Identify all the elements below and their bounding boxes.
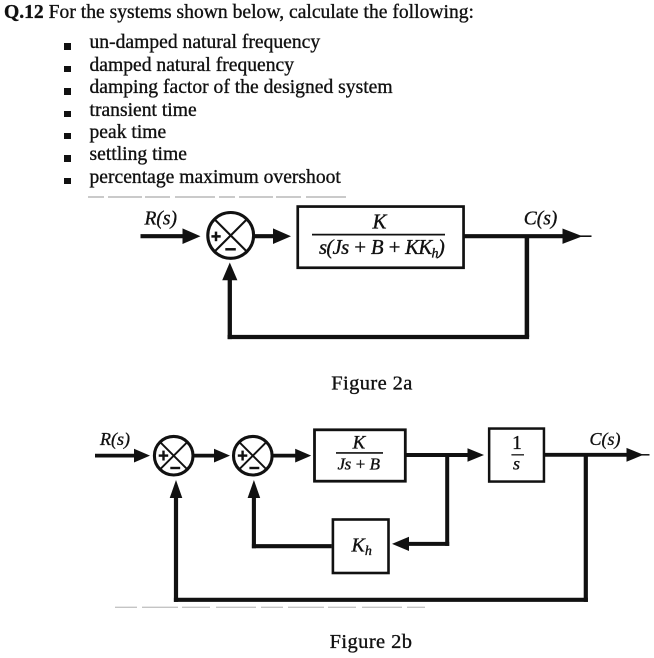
bullet 3 [64,88,71,95]
arrowhead into G3 [468,448,485,461]
bullet 6 [64,155,71,162]
svg-text:s(Js + B + KKh): s(Js + B + KKh) [319,236,445,262]
scan artifact line under bottom wire [115,606,425,608]
node takeoff fig2a [525,236,530,337]
arrowhead into summing junction fig2a [183,228,201,244]
svg-text:C(s): C(s) [590,429,621,450]
svg-text:R(s): R(s) [144,209,178,230]
bullet 4 [64,111,71,118]
svg-text:1: 1 [512,433,522,454]
arrowhead into S3 [214,449,230,463]
block G3 1/s [489,429,544,482]
scan artifact line under list [88,196,347,198]
wire inner feedback left vertical [252,497,256,548]
minus sign S3 [249,467,259,469]
svg-text:Figure 2a: Figure 2a [331,373,413,395]
wire feedback bottom fig2a [228,335,529,339]
wire block G1 to output fig2a [465,234,564,238]
arrowhead into G2 [295,449,311,463]
arrowhead outer feedback into S2 [170,480,183,498]
bullet 7 [64,178,71,185]
block G2 K/(Js+B) [315,430,406,481]
wire feedback left vertical fig2a [228,277,232,339]
summing junction S2 [154,436,193,475]
plus sign S1 [211,232,220,242]
block G4 Kh [333,520,389,574]
bullet 1 [64,43,71,50]
arrowhead output fig2b [627,448,650,462]
svg-text:K: K [352,433,367,454]
denominator Js+B G2 [337,455,380,474]
svg-text:R(s): R(s) [99,429,130,450]
wire G2 to G3 [407,453,471,457]
node takeoff outer feedback [584,455,588,602]
block G1 K/s(Js+B+KKh) [298,207,464,268]
summing junction S3 [234,436,273,475]
arrowhead into block fig2a [273,228,291,244]
arrowhead feedback into S1 fig2a [222,263,237,281]
value K numerator G1 [371,209,387,233]
plus sign S3 [238,451,248,461]
caption Figure 2b [330,631,413,653]
question heading Q.12 [4,2,474,24]
wire inner feedback horizontal right [407,542,450,546]
wire R(s) input fig2a [141,234,187,238]
svg-text:K: K [371,209,387,233]
arrowhead inner feedback into S3 [248,480,261,498]
label R(s) fig2a [144,209,178,230]
bullet 5 [64,133,71,140]
wire S1 to block fig2a [254,234,275,238]
wire G3 to output fig2b [545,453,628,457]
label C(s) fig2b [590,429,621,450]
svg-text:Figure 2b: Figure 2b [330,631,413,653]
arrowhead into S2 [134,449,150,463]
value K numerator G2 [352,433,367,454]
fraction bar G3 [511,454,524,456]
wire Kh to left corner [252,544,332,548]
wire outer feedback bottom [174,598,588,602]
arrowhead output fig2a [563,229,592,244]
minus sign S2 [170,467,180,469]
fraction bar G1 [312,234,445,236]
wire outer feedback left vertical [174,497,178,602]
plus sign S2 [159,451,169,461]
svg-text:Js + B: Js + B [337,455,380,474]
caption Figure 2a [331,373,413,395]
value Kh [351,535,372,560]
denominator s(Js+B+KKh) G1 [319,236,445,262]
summing junction S1 fig2a [208,213,254,259]
svg-text:C(s): C(s) [524,209,558,230]
wire R(s) input fig2b [95,454,136,458]
svg-text:s: s [513,453,520,473]
minus sign S1 [225,248,236,251]
fraction bar G2 [336,452,383,454]
denominator s G3 [513,453,520,473]
arrowhead into Kh block [392,537,409,551]
node takeoff inner feedback [445,455,449,546]
value 1 numerator G3 [512,433,522,454]
bullet 2 [64,66,71,73]
label C(s) fig2a [524,209,558,230]
label R(s) fig2b [99,429,130,450]
wire S3 to block G2 [273,454,296,458]
wire S2 to S3 [194,454,216,458]
